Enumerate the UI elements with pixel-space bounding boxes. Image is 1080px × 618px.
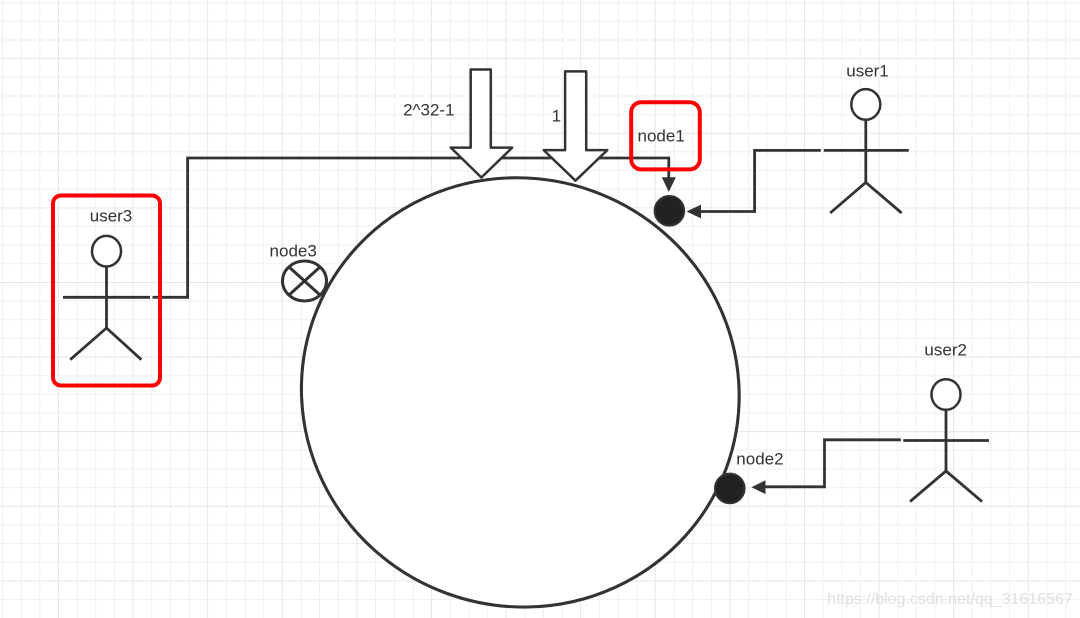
node1 dot: [655, 196, 685, 226]
wire user2 arrowhead left: [751, 480, 765, 494]
svg-text:1: 1: [552, 107, 561, 126]
block arrow 2^32-1: [451, 70, 512, 178]
svg-text:node2: node2: [736, 450, 783, 469]
actor user3: [63, 236, 150, 360]
wire user3 connector polyline to node1 arrow: [153, 158, 669, 297]
wire user3 arrowhead down at node1: [662, 177, 676, 192]
red highlight box user3: [53, 196, 160, 386]
svg-text:user1: user1: [846, 62, 889, 81]
svg-text:node1: node1: [638, 127, 685, 146]
svg-text:user2: user2: [924, 341, 967, 360]
block arrow 1: [544, 71, 608, 180]
svg-text:user3: user3: [90, 207, 133, 226]
wire user1 connector to node1 dot: [700, 150, 821, 211]
svg-text:node3: node3: [270, 242, 317, 261]
actor user1: [824, 89, 909, 213]
wire user1 arrowhead left: [687, 205, 702, 219]
actor user2: [903, 379, 989, 501]
node2 dot: [715, 474, 745, 504]
svg-text:https://blog.csdn.net/qq_31616: https://blog.csdn.net/qq_31616567: [827, 591, 1073, 608]
red highlight box node1: [631, 102, 700, 169]
svg-text:2^32-1: 2^32-1: [403, 101, 454, 120]
node3 crossed circle: [283, 261, 327, 301]
hash ring circle: [241, 116, 800, 618]
wire user2 connector to node2 dot: [764, 440, 901, 487]
